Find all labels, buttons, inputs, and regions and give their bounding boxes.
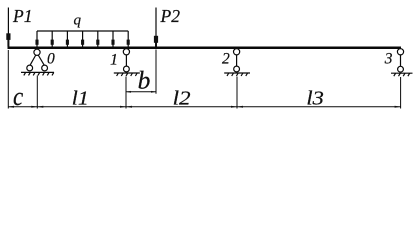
svg-text:1: 1 <box>110 52 118 69</box>
support 3 (roller link) <box>391 49 413 76</box>
support 0 (pinned, two links) <box>21 49 54 75</box>
extension line below support 1 <box>125 77 127 109</box>
svg-text:q: q <box>74 13 82 29</box>
svg-text:P2: P2 <box>160 6 181 26</box>
distributed load arrow 7 <box>127 31 130 47</box>
extension line at right end <box>400 77 402 109</box>
svg-text:P1: P1 <box>12 6 32 26</box>
dimension arrows at x=37 <box>31 106 43 108</box>
svg-text:l2: l2 <box>173 87 191 109</box>
dimension arrows at x=126 <box>120 106 132 108</box>
svg-text:l3: l3 <box>306 87 324 109</box>
distributed load arrow 6 <box>111 31 114 47</box>
dimension arrow at x=8 <box>8 106 14 108</box>
svg-text:b: b <box>138 66 151 95</box>
dimension arrow at x=400.6 <box>395 106 401 108</box>
main dimension line <box>8 106 401 108</box>
svg-text:3: 3 <box>384 51 393 68</box>
force P1 <box>6 8 10 47</box>
svg-text:c: c <box>13 82 24 111</box>
distributed load arrow 4 <box>81 31 84 47</box>
svg-text:2: 2 <box>222 51 230 68</box>
force P2 <box>154 8 158 47</box>
extension line below support 2 <box>236 77 238 109</box>
distributed load arrow 2 <box>51 31 54 47</box>
distributed load arrow 5 <box>96 31 99 47</box>
dimension arrows at x=237 <box>231 106 243 108</box>
svg-text:l1: l1 <box>72 87 89 109</box>
distributed load arrow 1 <box>35 31 38 47</box>
extension line below P2 <box>155 50 157 94</box>
distributed load arrow 3 <box>66 31 69 47</box>
extension line below support 0 <box>36 76 38 109</box>
distributed load q top line <box>37 30 128 32</box>
dimension line b <box>126 91 156 93</box>
support 2 (roller link) <box>224 49 250 76</box>
beam <box>8 47 402 49</box>
extension line at left beam end <box>7 50 9 109</box>
support 1 (roller link) <box>114 49 140 76</box>
svg-text:0: 0 <box>47 51 55 68</box>
